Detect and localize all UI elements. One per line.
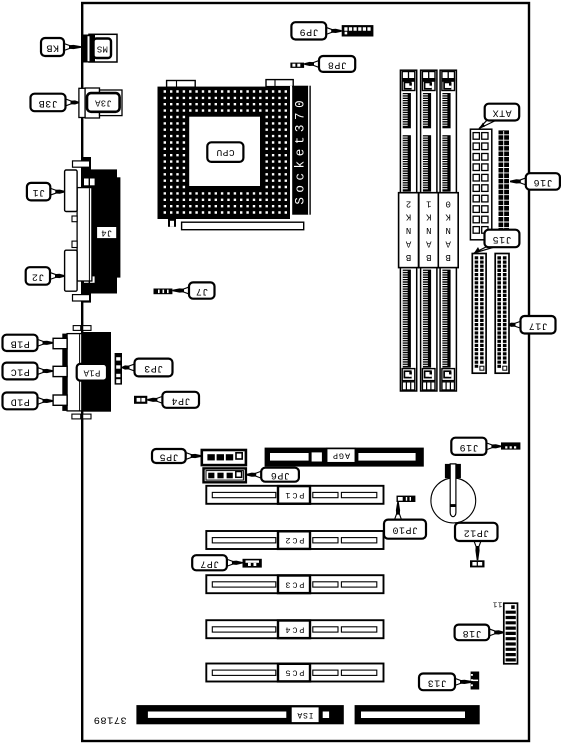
svg-text:K: K [405, 212, 411, 222]
callout label J17 [509, 316, 556, 334]
connector MS (PS/2 keyboard+mouse stack) [82, 34, 118, 62]
svg-text:Socket370: Socket370 [293, 96, 307, 205]
svg-text:JP3: JP3 [144, 362, 164, 373]
callout label P1B [3, 335, 54, 351]
svg-text:J16: J16 [533, 176, 553, 187]
DIMM slot BANK1 [419, 70, 439, 391]
svg-text:MS: MS [96, 43, 107, 53]
callout label ATX [479, 104, 519, 129]
svg-text:B: B [426, 252, 432, 262]
svg-text:P1D: P1D [10, 395, 30, 406]
callout label J2 [26, 267, 65, 285]
svg-text:2: 2 [406, 198, 411, 208]
svg-text:A: A [405, 239, 411, 249]
connector block J4 with D-subs J1 and J2 [65, 157, 121, 303]
svg-text:PC1: PC1 [284, 490, 305, 500]
svg-text:J18: J18 [462, 627, 482, 638]
callout label JP7 [192, 555, 242, 570]
callout label J1 [27, 183, 65, 201]
svg-text:J19: J19 [459, 441, 479, 452]
callout label JP6 [246, 468, 299, 482]
callout label J7 [172, 282, 214, 298]
svg-text:37189: 37189 [93, 713, 127, 725]
svg-text:J15: J15 [492, 233, 512, 244]
svg-text:J3B: J3B [38, 97, 58, 108]
svg-text:PC3: PC3 [284, 579, 305, 589]
svg-text:KB: KB [46, 42, 59, 53]
callout label J13 [419, 674, 473, 691]
PCI slot PC1 [206, 486, 383, 504]
svg-text:N: N [445, 225, 450, 235]
header J17 [495, 254, 509, 374]
header J16 [499, 130, 510, 229]
connector J3A (USB stack) [79, 88, 122, 118]
svg-text:K: K [445, 212, 451, 222]
PCI slot PC4 [206, 620, 383, 638]
svg-text:B: B [405, 252, 411, 262]
svg-text:0: 0 [445, 198, 450, 208]
board outline [82, 3, 529, 741]
callout label JP10 [384, 502, 426, 539]
jumper block JP6 [204, 468, 246, 482]
ISA slot right part [355, 705, 480, 724]
svg-text:N: N [426, 225, 431, 235]
callout label KB [41, 38, 82, 56]
svg-text:AGP: AGP [332, 451, 350, 461]
Socket370 side bar [290, 86, 311, 219]
DIMM slot BANK0 [438, 70, 458, 391]
svg-text:ISA: ISA [297, 710, 314, 719]
svg-text:J4: J4 [101, 228, 112, 238]
callout label J18 [455, 625, 504, 641]
jumper JP7 [243, 559, 262, 568]
svg-text:A: A [426, 239, 432, 249]
svg-text:B: B [445, 252, 451, 262]
svg-text:JP4: JP4 [171, 394, 191, 405]
svg-text:1: 1 [426, 198, 431, 208]
svg-text:P1A: P1A [83, 367, 100, 377]
svg-text:JP8: JP8 [327, 59, 347, 70]
callout label J15 [474, 230, 519, 253]
jumper JP4 [134, 396, 147, 404]
svg-text:JP6: JP6 [270, 469, 290, 480]
jumper block JP5 [202, 450, 246, 465]
CPU socket Socket370 [158, 80, 294, 219]
header J7 [154, 289, 173, 295]
header J15 [472, 254, 486, 374]
callout label P1D [3, 393, 54, 410]
AGP slot [265, 448, 424, 467]
DIMM slot BANK2 [399, 70, 419, 391]
jumper JP12 [470, 560, 485, 567]
svg-text:J17: J17 [528, 319, 548, 330]
callout label JP12 [455, 523, 498, 561]
header JP3 [115, 353, 122, 385]
jumper JP8 [290, 63, 304, 68]
callout label JP5 [152, 449, 202, 463]
callout label JP3 [122, 359, 173, 377]
header J13 [471, 672, 480, 690]
connector block P1A with audio jacks P1B P1C P1D [53, 326, 111, 419]
ATX power connector [470, 129, 491, 240]
callout label J3B [31, 94, 80, 112]
svg-text:K: K [426, 212, 432, 222]
svg-text:J1: J1 [32, 186, 45, 197]
svg-text:11: 11 [492, 600, 502, 608]
callout label JP8 [304, 56, 355, 72]
svg-text:JP5: JP5 [159, 451, 179, 462]
svg-text:PC2: PC2 [284, 535, 305, 545]
PCI slot PC3 [206, 575, 383, 593]
header J19 [501, 442, 520, 449]
svg-text:J13: J13 [427, 676, 447, 687]
svg-text:JP10: JP10 [392, 524, 418, 535]
svg-text:J2: J2 [31, 270, 44, 281]
svg-text:P1B: P1B [10, 337, 30, 348]
svg-text:JP7: JP7 [200, 557, 220, 568]
callout label J19 [451, 438, 501, 455]
svg-text:J3A: J3A [94, 98, 111, 108]
ISA slot left part [136, 705, 343, 724]
callout label J16 [510, 173, 560, 190]
callout label JP4 [147, 392, 199, 408]
jumper block JP9 [342, 25, 374, 36]
svg-text:CPU: CPU [216, 147, 235, 158]
svg-text:ATX: ATX [492, 107, 512, 118]
callout label P1C [3, 363, 54, 380]
svg-text:PC5: PC5 [284, 668, 305, 678]
jumper JP10 [397, 496, 416, 502]
callout label JP9 [291, 22, 341, 39]
battery with holder clip [431, 464, 476, 523]
svg-text:N: N [406, 225, 411, 235]
svg-text:JP9: JP9 [299, 25, 319, 36]
PCI slot PC2 [206, 531, 383, 549]
PCI slot PC5 [206, 664, 383, 682]
svg-text:PC4: PC4 [284, 624, 305, 634]
svg-text:P1C: P1C [10, 366, 30, 377]
header J18 [504, 603, 518, 664]
svg-text:A: A [445, 239, 451, 249]
svg-text:JP12: JP12 [463, 526, 489, 537]
svg-text:J7: J7 [195, 285, 208, 296]
socket lever bar [168, 219, 304, 230]
